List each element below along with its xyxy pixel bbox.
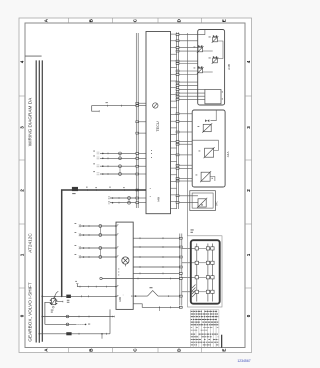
inline connector (66, 332, 71, 335)
bus wire 3 (41, 60, 43, 341)
A4B valve labels (209, 36, 211, 39)
TECU right connector strip (177, 32, 179, 209)
solenoid valve Y1 (212, 35, 219, 43)
wires TECU to valve block A4B (179, 30, 205, 100)
svg-text:2: 2 (19, 189, 24, 192)
svg-text:3: 3 (19, 126, 24, 129)
switch left branch (45, 302, 52, 324)
TECU left connector pins (136, 102, 146, 203)
table right edge mark (221, 335, 223, 348)
wire to module upper (77, 284, 116, 287)
TECU right pin stubs (171, 34, 177, 208)
svg-text:AT2412C: AT2412C (28, 233, 33, 253)
stepped wire from module bottom (133, 304, 180, 308)
module annotation upper (117, 268, 120, 271)
title block separator line (25, 55, 42, 57)
switch right stub (56, 301, 63, 303)
connector pin pads (195, 247, 214, 294)
TECU pin numbers column (149, 187, 152, 190)
TECU left connector strip (136, 33, 138, 208)
fuse label (72, 192, 75, 195)
sensor B4C outer box (190, 191, 216, 211)
sensor B4C symbol (197, 198, 207, 208)
svg-text:E: E (222, 19, 227, 22)
bus wire 1 (35, 60, 37, 342)
svg-text:4: 4 (19, 60, 24, 63)
sensor wire group of four (93, 151, 136, 176)
lower connector strip (180, 234, 182, 306)
grid numbers right (246, 60, 251, 317)
YB wires (192, 140, 218, 150)
wire pair with splices (108, 196, 136, 204)
fuse F132 (72, 187, 78, 191)
proportional valve YA (202, 119, 212, 132)
A4B pump pin labels (222, 91, 223, 94)
wire table text rows (191, 311, 219, 345)
connector pin columns (197, 244, 213, 302)
module wires with splices (75, 223, 117, 259)
supply wire pin labels (86, 186, 88, 189)
connector keying hatch (192, 285, 196, 298)
svg-text:2: 2 (246, 189, 251, 192)
solenoid valve Y3 (212, 56, 219, 64)
pressure switch symbol (148, 291, 159, 297)
main supply cable thick (62, 190, 146, 296)
connector label (191, 229, 194, 232)
A4B pump sub-box (205, 90, 221, 104)
wire bus3 tap y316 (42, 316, 114, 318)
A4B internal wires (203, 41, 224, 72)
pressure switch label (150, 286, 153, 289)
hook end tick (98, 110, 100, 112)
switch terminal dots (50, 300, 58, 305)
svg-text:TECU: TECU (156, 121, 160, 132)
grid letters top A-E (44, 18, 227, 22)
switch label (51, 309, 54, 312)
svg-text:A4M: A4M (158, 197, 161, 202)
svg-text:E: E (222, 349, 227, 352)
valve block A4B (198, 30, 225, 106)
link wire to module bottom (109, 309, 111, 333)
switch diagonal contact (51, 299, 55, 305)
svg-text:WIRING DIAGRAM DA: WIRING DIAGRAM DA (28, 97, 33, 146)
harness vertical wire (186, 33, 188, 236)
valve block A4A (192, 110, 225, 187)
feed wire bus3 to module (42, 295, 116, 297)
wire switch branch y324 (45, 323, 76, 325)
YA loop wire (211, 110, 217, 121)
TECU circle symbol (153, 103, 158, 108)
TECU ECU box (146, 32, 171, 214)
YC wire (210, 177, 215, 182)
svg-text:1234567: 1234567 (237, 359, 250, 363)
inline connector on feed wire (66, 295, 71, 298)
CAN stub wire with hook (92, 106, 137, 112)
TECU right connector pins (176, 34, 179, 204)
drop at junction (101, 334, 103, 338)
TECU pin annotation (150, 149, 153, 152)
grid numbers left (19, 60, 24, 317)
wire bus2 tap y334 (39, 333, 110, 335)
wire list table grid (190, 310, 219, 348)
wires module to strip (133, 237, 180, 274)
gearbox module A4M box (116, 222, 133, 309)
svg-text:GEARBOX, VOLVO I-SHIFT: GEARBOX, VOLVO I-SHIFT (28, 282, 33, 341)
motor symbol (122, 257, 129, 267)
switch top connection (54, 296, 56, 298)
hook wire ticks (107, 105, 121, 107)
bus wire 2 (38, 60, 40, 342)
svg-text:A4M: A4M (119, 297, 122, 302)
strip to connector stubs (182, 248, 195, 291)
switch stub labels (67, 299, 70, 302)
svg-text:B4C: B4C (215, 201, 218, 206)
B4C tiny marks (201, 204, 203, 207)
switch actuator (54, 291, 59, 298)
connector housing thick frame (191, 240, 220, 304)
wire y278 (102, 278, 180, 280)
inner drawing frame (25, 23, 245, 348)
pressure switch wire (133, 295, 180, 297)
proportional valve YB (204, 147, 215, 158)
svg-text:4: 4 (246, 60, 251, 63)
grid letters bottom A-E (44, 348, 227, 352)
supply wire ticks (87, 189, 124, 191)
hook wire label (106, 101, 108, 104)
outer border (19, 18, 252, 353)
switch aux circle (52, 306, 54, 308)
module pin marks (117, 225, 118, 297)
svg-text:1: 1 (19, 253, 24, 256)
svg-text:0: 0 (19, 314, 24, 317)
connector housing outer (188, 236, 223, 307)
grid band ticks (19, 18, 252, 353)
solenoid valve Y2 (197, 45, 204, 53)
svg-text:0: 0 (246, 314, 251, 317)
switch contact box (51, 299, 55, 305)
solenoid valve Y4 (197, 66, 204, 74)
A4A valve labels (198, 125, 200, 128)
proportional valve YC (200, 171, 211, 182)
svg-text:1: 1 (246, 253, 251, 256)
wires TECU to sensor B4C (179, 196, 198, 203)
sensor B4C inner box (192, 193, 213, 208)
lower strip pins (179, 237, 182, 308)
svg-text:A4A: A4A (226, 152, 230, 158)
wires TECU to valve block A4A (179, 114, 193, 181)
svg-text:3: 3 (246, 126, 251, 129)
svg-text:A4B: A4B (227, 64, 231, 70)
